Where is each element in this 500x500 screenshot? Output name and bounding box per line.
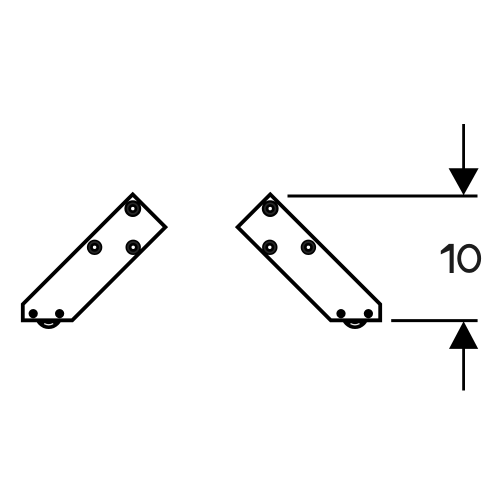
left bracket pin dot 2 [55,309,64,318]
right bracket pin dot 2 [364,309,373,318]
left bracket screw middle-left [87,240,102,255]
right bracket screw top [262,200,279,217]
left bracket plate [23,194,166,320]
dimension arrowhead top [449,168,479,195]
dimension extension line bottom [391,319,477,322]
right bracket screw middle-left [262,240,277,255]
right bracket pin dot 1 [336,309,345,318]
dimension arrowhead bottom [449,321,478,349]
left bracket rivet dome [35,301,63,329]
right bracket plate [238,194,381,320]
dimension arrow bottom leader [462,348,465,391]
left bracket screw middle-right [126,240,141,255]
left bracket pin dot 1 [29,309,38,318]
right bracket rivet highlight arc [351,324,360,325]
dimension text 10 : digit 0 [459,246,479,271]
dimension arrow top leader [462,124,465,169]
right bracket rivet dome [341,301,369,329]
dimension extension line top [288,195,478,198]
right bracket screw middle-right [301,240,316,255]
left bracket rivet highlight arc [44,324,53,325]
dimension text 10 : digit 1 [441,244,454,273]
left bracket screw top [124,200,141,217]
